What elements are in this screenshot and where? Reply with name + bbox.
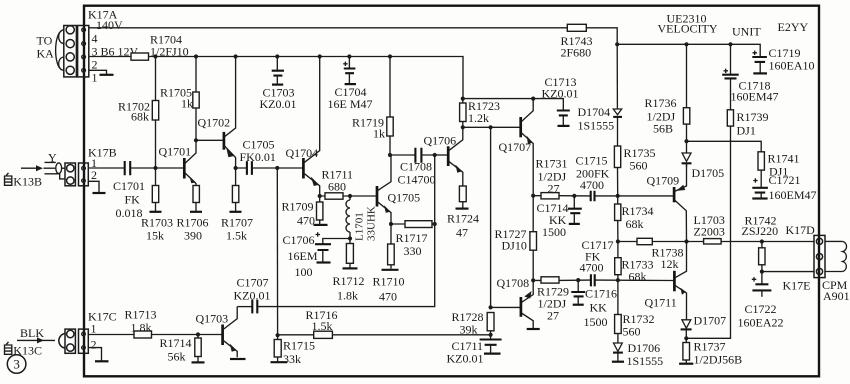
svg-text:R1706: R1706 (177, 216, 209, 230)
transistor Q1701 (184, 140, 196, 185)
svg-text:33UHK: 33UHK (366, 206, 378, 241)
svg-text:68k: 68k (131, 110, 149, 124)
node R1717 right (433, 222, 437, 226)
svg-text:KZ0.01: KZ0.01 (542, 86, 579, 100)
capacitor C1701 (125, 161, 131, 175)
node C1701/R1703 (153, 166, 157, 170)
diode D1705 (682, 141, 692, 167)
resistor R1728 (487, 313, 494, 335)
svg-text:R1703: R1703 (141, 216, 173, 230)
svg-text:15k: 15k (146, 229, 164, 243)
node dots 12V rail (153, 54, 157, 58)
svg-text:Q1701: Q1701 (159, 144, 192, 158)
diode D1704 (613, 44, 622, 146)
wire Q1709 base (618, 195, 674, 197)
svg-text:2F680: 2F680 (561, 45, 592, 59)
svg-text:Y: Y (48, 150, 57, 164)
capacitor C1711 (480, 335, 502, 354)
svg-text:2: 2 (91, 168, 97, 182)
svg-text:Q1704: Q1704 (286, 146, 319, 160)
resistor R1710 (382, 224, 399, 270)
resistor R1735 (614, 146, 620, 196)
svg-text:C1721: C1721 (769, 173, 801, 187)
wire feedback vertical x435 (258, 155, 435, 307)
svg-text:K17E: K17E (783, 278, 811, 292)
node x490 tap (489, 125, 493, 129)
ground K17B pin2 (89, 181, 99, 192)
node C1716 (576, 278, 580, 282)
node R1711 / L1701 (348, 194, 352, 198)
inductor L1701 (346, 196, 350, 239)
svg-text:R1717: R1717 (396, 231, 428, 245)
node C1705 / feedback (275, 166, 279, 170)
svg-text:100: 100 (295, 265, 313, 279)
resistor R1729 (541, 277, 559, 283)
resistor R1717 (405, 221, 432, 228)
resistor R1719 (387, 57, 393, 156)
node R1719 / C1708 / Q1705 collector (388, 153, 392, 157)
wire to x730 (686, 78, 730, 338)
diode D1706 (612, 343, 624, 362)
svg-text:3: 3 (13, 357, 20, 372)
node D1707 / R1737 (684, 336, 688, 340)
svg-text:160EM47: 160EM47 (731, 90, 779, 104)
svg-text:VELOCITY: VELOCITY (658, 22, 718, 36)
node x617 top (615, 42, 619, 46)
svg-text:DJ1: DJ1 (737, 123, 756, 137)
transistor Q1703 (223, 307, 246, 359)
svg-text:Z2003: Z2003 (694, 224, 725, 238)
svg-text:160EM47: 160EM47 (769, 188, 817, 202)
wire feedback vertical x277 (276, 168, 278, 335)
resistor R1715 (271, 335, 288, 362)
svg-text:Q1708: Q1708 (497, 276, 530, 290)
svg-text:C1716: C1716 (585, 287, 617, 301)
transistor Q1709 (674, 163, 686, 241)
svg-text:R1737: R1737 (694, 340, 726, 354)
svg-text:C14700: C14700 (398, 173, 436, 187)
resistor R1704 (131, 53, 149, 60)
svg-text:Q1702: Q1702 (198, 116, 231, 130)
wire Q1701 collector to Q1702 base (196, 139, 223, 141)
ground K17C pin2 (89, 348, 102, 361)
svg-text:R1707: R1707 (221, 216, 253, 230)
wire K17C pin1 to R1713 (89, 334, 134, 336)
capacitor C1704 (343, 57, 356, 85)
svg-text:R1724: R1724 (447, 211, 479, 225)
node R1714 (196, 332, 200, 336)
transistor Q1705 (377, 155, 391, 224)
wire y141.3 to R1741 (687, 141, 762, 152)
resistor R1734 (615, 196, 621, 242)
connector K17B (65, 163, 88, 186)
svg-text:1.8k: 1.8k (131, 320, 152, 334)
wire y98.6 rail (463, 99, 564, 110)
svg-text:KZ0.01: KZ0.01 (234, 288, 271, 302)
transistor Q1706 (448, 127, 463, 186)
node Q1709/Q1711 collectors (684, 239, 688, 243)
wire K17B pin1 to C1701 (89, 167, 124, 169)
svg-text:E2YY: E2YY (778, 20, 809, 34)
resistor R1716 (314, 331, 333, 338)
svg-text:R1713: R1713 (125, 307, 157, 321)
resistor R1713 (134, 331, 152, 338)
svg-text:D1704: D1704 (578, 105, 611, 119)
wire Q1708 base (491, 306, 521, 308)
svg-text:1S1555: 1S1555 (627, 354, 664, 368)
resistor R1711 (325, 193, 343, 199)
svg-text:1/2DJ56B: 1/2DJ56B (694, 353, 743, 367)
svg-text:FK0.01: FK0.01 (240, 150, 276, 164)
svg-text:KZ0.01: KZ0.01 (260, 97, 297, 111)
transistor Q1707 (521, 99, 534, 196)
node R1723 top (461, 97, 465, 101)
transistor Q1702 (224, 57, 236, 169)
capacitor C1716 (571, 280, 585, 305)
svg-text:R1710: R1710 (373, 274, 405, 288)
svg-text:C1706: C1706 (283, 233, 315, 247)
capacitor C1714 (568, 196, 582, 224)
svg-text:4700: 4700 (580, 178, 604, 192)
svg-text:C1722: C1722 (745, 302, 777, 316)
input Y coax (21, 162, 65, 179)
svg-text:R1736: R1736 (645, 96, 677, 110)
label 自K13C (5, 342, 42, 358)
capacitor C1715 (591, 191, 595, 202)
svg-text:R1714: R1714 (160, 336, 192, 350)
svg-text:1500: 1500 (542, 225, 566, 239)
diode D1707 (681, 320, 692, 339)
node Q1707 collector (531, 97, 535, 101)
connector K17C (65, 329, 88, 353)
svg-text:68k: 68k (626, 217, 644, 231)
svg-text:C1701: C1701 (113, 179, 145, 193)
node x617 base row Q1709 (616, 194, 620, 198)
svg-text:DJ10: DJ10 (502, 238, 527, 252)
node Q1701 collector (194, 138, 198, 142)
svg-text:1k: 1k (181, 97, 193, 111)
resistor R1706 (190, 186, 202, 212)
node L1701 bottom (348, 236, 352, 240)
svg-text:1k: 1k (373, 127, 385, 141)
node Q1708 emitter / R1727 / R1729 (531, 278, 535, 282)
node Q1702 emitter (234, 166, 238, 170)
svg-text:UNIT: UNIT (732, 24, 761, 38)
svg-text:Q1706: Q1706 (424, 134, 457, 148)
resistor R1723 (460, 99, 466, 128)
svg-text:KK: KK (590, 301, 608, 315)
svg-text:R1709: R1709 (282, 200, 314, 214)
resistor R1741 (758, 152, 764, 170)
wire K17E (762, 271, 814, 273)
node C1708 / x435 feedback (433, 153, 437, 157)
svg-text:Q1703: Q1703 (196, 311, 229, 325)
motor coil CPM (825, 241, 847, 271)
svg-text:1.2k: 1.2k (468, 111, 489, 125)
connector K17D/K17E (814, 235, 825, 277)
svg-text:1.8k: 1.8k (337, 288, 358, 302)
resistor R1714 (192, 335, 205, 363)
svg-text:C1708: C1708 (400, 160, 432, 174)
svg-text:47: 47 (456, 225, 468, 239)
node C1714 (572, 194, 576, 198)
svg-text:Q1707: Q1707 (499, 140, 532, 154)
node Q1704 emitter / R1709 / R1711 (318, 194, 322, 198)
svg-text:27: 27 (547, 308, 559, 322)
svg-text:33k: 33k (283, 352, 301, 366)
resistor R1732 (615, 280, 622, 343)
capacitor C1719 (752, 51, 767, 74)
node x686 top (684, 42, 688, 46)
connector K17A (56, 26, 89, 77)
resistor R1736 (683, 44, 689, 141)
svg-text:56B: 56B (653, 121, 673, 135)
svg-text:TO: TO (37, 33, 53, 47)
svg-text:560: 560 (623, 324, 641, 338)
svg-text:4: 4 (92, 32, 98, 46)
svg-text:D1705: D1705 (692, 166, 725, 180)
svg-text:1: 1 (91, 321, 97, 335)
svg-text:0.018: 0.018 (116, 206, 143, 220)
svg-text:2: 2 (91, 337, 97, 351)
svg-text:1: 1 (92, 71, 98, 85)
node x730 top (728, 42, 732, 46)
svg-text:Q1709: Q1709 (647, 174, 680, 188)
resistor R1743 (567, 24, 586, 31)
node Q1707 emitter / R1731 row (531, 194, 535, 198)
svg-text:12k: 12k (661, 257, 679, 271)
wire 140V rail (89, 27, 568, 29)
resistor R1712 (343, 239, 358, 269)
wire 12V rail (89, 57, 463, 99)
svg-text:4700: 4700 (580, 261, 604, 275)
svg-text:A901: A901 (823, 289, 850, 303)
svg-text:56k: 56k (168, 349, 186, 363)
wire node to Q1704 base (277, 167, 302, 169)
wire C1701 to Q1701 base (131, 167, 183, 169)
svg-text:16E M47: 16E M47 (328, 97, 373, 111)
svg-text:2: 2 (92, 58, 98, 72)
svg-text:KZ0.01: KZ0.01 (447, 351, 484, 365)
resistor R1727 (530, 196, 537, 281)
wire vertical x490 (490, 127, 492, 307)
node R1723 bottom / Q1706 collector (461, 125, 465, 129)
svg-text:160EA10: 160EA10 (769, 59, 815, 73)
wire to Q1707 base (463, 126, 520, 128)
capacitor C1722 (752, 272, 772, 297)
svg-text:K13B: K13B (13, 174, 42, 188)
resistor R1724 (456, 186, 469, 209)
svg-text:390: 390 (184, 229, 202, 243)
resistor R1709 (314, 196, 328, 225)
svg-text:160EA22: 160EA22 (738, 315, 784, 329)
svg-text:470: 470 (379, 289, 397, 303)
svg-text:R1712: R1712 (333, 274, 365, 288)
resistor R1742 (759, 242, 765, 272)
node R1728 bottom (489, 333, 493, 337)
svg-text:C1715: C1715 (576, 154, 608, 168)
svg-text:FK: FK (125, 192, 141, 206)
svg-text:Q1705: Q1705 (388, 190, 421, 204)
node x686 / wire y141 (684, 139, 688, 143)
svg-text:140V: 140V (96, 18, 123, 32)
svg-text:560: 560 (630, 158, 648, 172)
svg-text:330: 330 (404, 244, 422, 258)
capacitor C1713 (557, 111, 570, 126)
svg-text:39k: 39k (460, 322, 478, 336)
svg-text:Q1711: Q1711 (645, 296, 677, 310)
svg-text:1.5k: 1.5k (226, 229, 247, 243)
svg-text:K17D: K17D (786, 223, 816, 237)
circled 3 (7, 355, 26, 374)
transistor Q1708 (521, 280, 540, 329)
resistor R1705 (193, 57, 199, 141)
node x617 R1738 row (616, 239, 620, 243)
svg-text:C1707: C1707 (237, 275, 269, 289)
svg-text:R1734: R1734 (622, 204, 654, 218)
capacitor C1707 (237, 306, 251, 308)
capacitor C1708 (390, 154, 435, 156)
inductor L1703 (704, 239, 722, 244)
resistor R1703 (150, 168, 162, 212)
capacitor C1705 (236, 161, 278, 174)
svg-text:KA: KA (37, 47, 55, 61)
resistor R1733 (615, 242, 621, 281)
svg-text:D1707: D1707 (694, 314, 727, 328)
svg-text:D1706: D1706 (628, 341, 661, 355)
capacitor C1718 (722, 44, 739, 78)
svg-text:1500: 1500 (584, 315, 608, 329)
svg-text:470: 470 (297, 214, 315, 228)
capacitor C1703 (272, 57, 284, 85)
svg-text:R1731: R1731 (536, 157, 568, 171)
node Q1705 emitter / R1710 / R1717 (389, 222, 393, 226)
ground K17A pin1 (89, 70, 107, 74)
svg-text:27: 27 (548, 181, 560, 195)
node R1715/R1716 (276, 333, 280, 337)
svg-text:ZSJ220: ZSJ220 (742, 224, 779, 238)
node x617 R1729 row (616, 278, 620, 282)
svg-text:68k: 68k (629, 269, 647, 283)
capacitor C1706 (315, 232, 350, 262)
svg-text:R1715: R1715 (283, 338, 315, 352)
transistor Q1704 (303, 57, 319, 197)
capacitor C1717 (591, 274, 595, 286)
capacitor C1721 (752, 170, 768, 198)
svg-text:1S1555: 1S1555 (578, 118, 615, 132)
svg-text:16EM: 16EM (288, 249, 318, 263)
node x490 / base (489, 305, 493, 309)
resistor R1707 (230, 168, 242, 212)
wire C1708 to Q1706 base (435, 154, 448, 156)
label 自K13B (5, 173, 42, 189)
resistor R1731 (541, 193, 559, 199)
svg-text:R1739: R1739 (737, 110, 769, 124)
resistor R1702 (152, 57, 158, 169)
node R1742 top (760, 239, 764, 243)
svg-text:L1701: L1701 (354, 212, 366, 241)
svg-text:R1741: R1741 (768, 151, 800, 165)
node K17E wire (760, 270, 764, 274)
svg-text:680: 680 (328, 179, 346, 193)
input BLK coax (17, 334, 65, 349)
svg-text:1.5k: 1.5k (312, 319, 333, 333)
transistor Q1711 (674, 242, 686, 320)
resistor R1738 (637, 238, 652, 244)
resistor R1739 (727, 110, 733, 126)
svg-text:BLK: BLK (20, 326, 44, 340)
wire y44.3 (617, 44, 760, 57)
resistor R1737 (679, 338, 693, 363)
